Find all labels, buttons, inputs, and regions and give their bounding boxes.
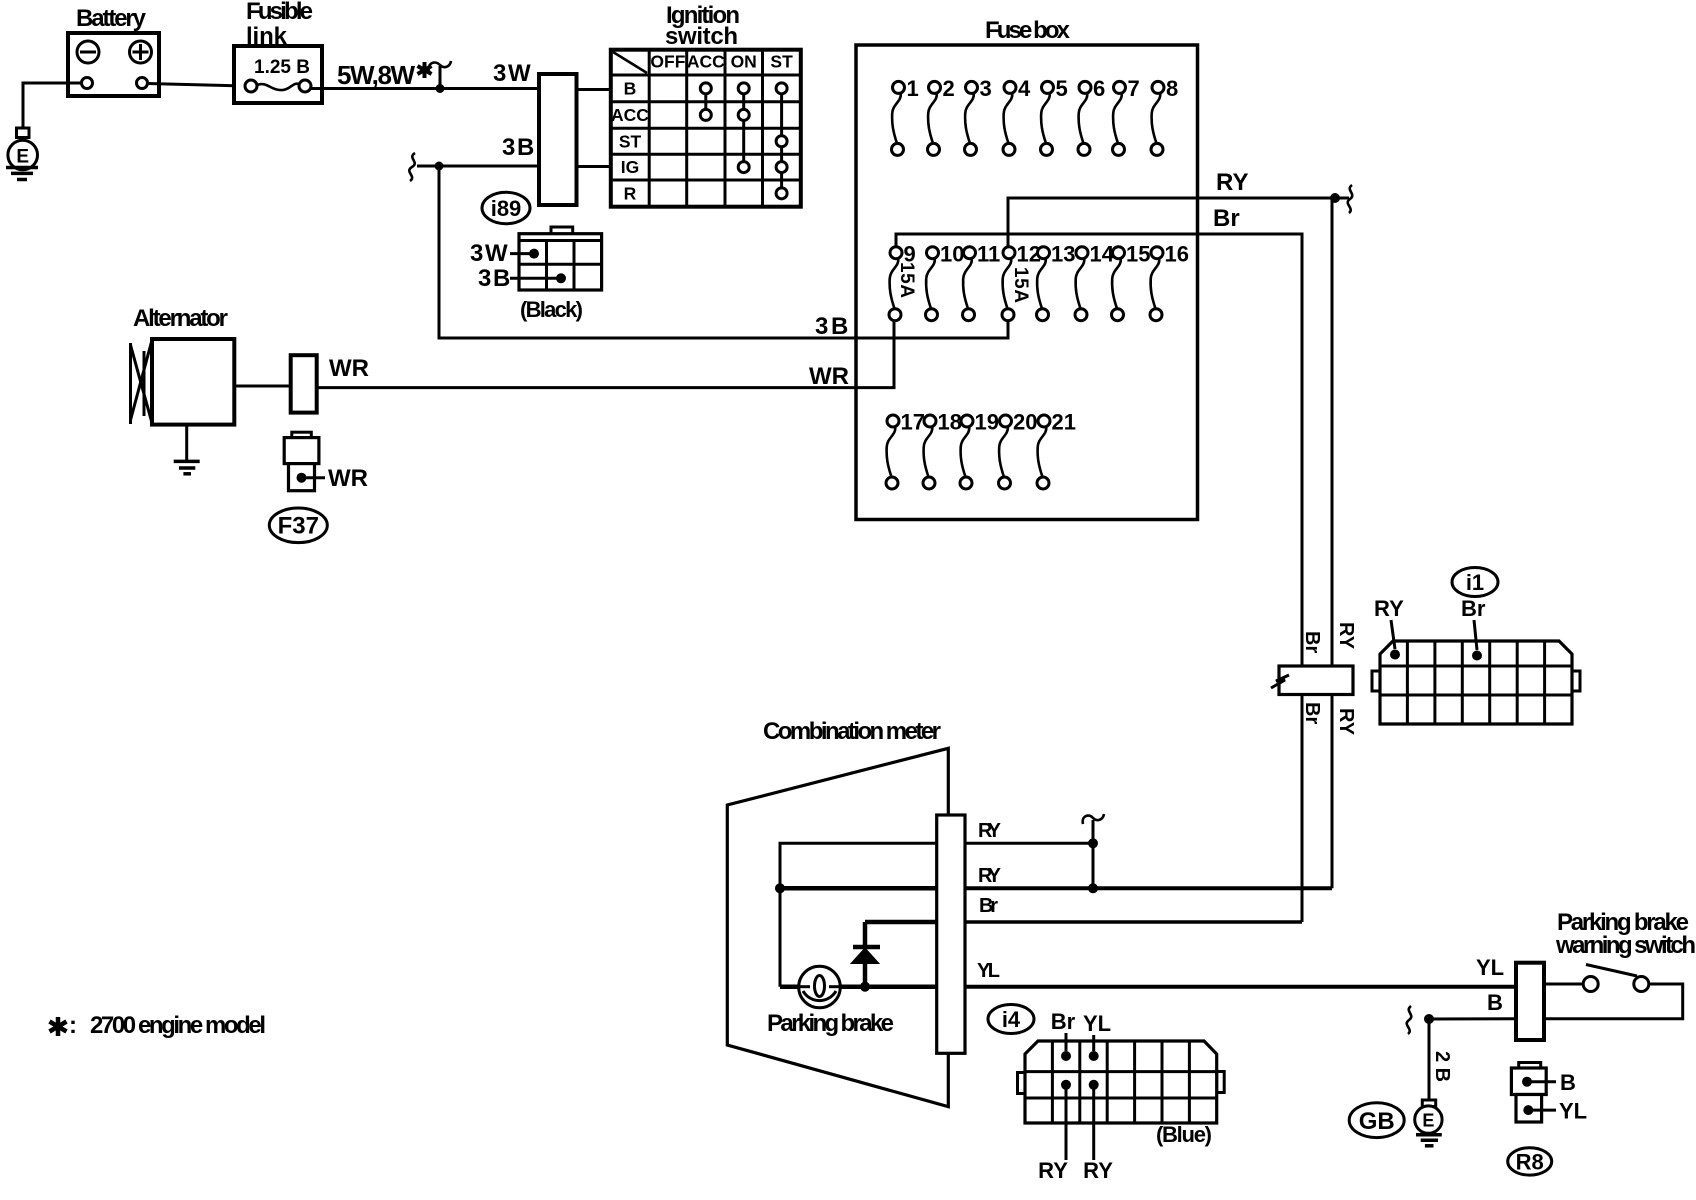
wire alternator to WR connector: [234, 385, 290, 388]
svg-text:13: 13: [1051, 242, 1075, 267]
i4 pin RY left: [1061, 1080, 1071, 1090]
svg-text:RY: RY: [1216, 169, 1248, 196]
wire Br inside meter: [865, 920, 937, 925]
svg-text:YL: YL: [1559, 1099, 1587, 1124]
svg-text:20: 20: [1013, 410, 1037, 435]
svg-text:3: 3: [980, 76, 992, 101]
svg-text:W: W: [508, 60, 531, 87]
svg-text:switch: switch: [665, 23, 738, 50]
WR in-line connector: [291, 355, 317, 412]
fusible link: [234, 46, 322, 103]
svg-text::: :: [69, 1012, 77, 1039]
svg-text:RY: RY: [1374, 596, 1404, 621]
wire Br from fuse 9: [896, 234, 1302, 666]
R8 pin YL: [1523, 1105, 1533, 1115]
svg-text:i4: i4: [1002, 1007, 1021, 1032]
wire YL to parking brake switch: [965, 985, 1516, 989]
node diode junction: [860, 982, 870, 992]
svg-text:W: W: [485, 240, 508, 267]
svg-text:ON: ON: [731, 52, 757, 72]
F37 oval: [269, 508, 327, 543]
fuse 15: [1112, 247, 1125, 321]
fuse box: [856, 45, 1198, 520]
wire WR to fuse 9: [317, 321, 894, 388]
parking brake warning switch: [1583, 965, 1649, 992]
fuse 17: [886, 415, 899, 489]
wire RY from fuse 12: [1008, 198, 1335, 247]
connector F37: [284, 432, 319, 491]
svg-text:5: 5: [1056, 76, 1068, 101]
svg-text:6: 6: [1093, 76, 1105, 101]
ignition switch contacts ST position: [776, 83, 787, 199]
footnote asterisk: [50, 1017, 67, 1036]
ignition switch contacts ACC position: [700, 83, 711, 121]
svg-text:ACC: ACC: [687, 52, 725, 72]
svg-text:B: B: [831, 313, 848, 340]
fuse 21: [1037, 415, 1050, 489]
wire connector to table B row: [577, 88, 611, 91]
wire B to ground junction: [1429, 1017, 1516, 1020]
svg-text:15A: 15A: [896, 262, 917, 298]
svg-text:Br: Br: [1213, 205, 1240, 232]
connector R8: [1511, 1063, 1546, 1123]
svg-text:GB: GB: [1359, 1108, 1395, 1135]
alternator ground: [174, 425, 200, 474]
in-line connector on Br/RY wires: [1279, 666, 1353, 695]
fuse 10: [926, 247, 939, 321]
wire break symbol left of B node: [1407, 1006, 1412, 1034]
fuse 4: [1003, 81, 1016, 155]
wire to parking brake lamp: [779, 888, 782, 986]
svg-text:7: 7: [1128, 76, 1140, 101]
svg-text:5W,8W: 5W,8W: [337, 60, 415, 90]
svg-text:ST: ST: [619, 131, 642, 151]
fuse 18: [923, 415, 936, 489]
svg-text:4: 4: [1018, 76, 1031, 101]
svg-text:2: 2: [943, 76, 955, 101]
fuse 20: [999, 415, 1012, 489]
fuse 11: [963, 247, 976, 321]
svg-text:Fusible: Fusible: [246, 0, 313, 25]
fuse 16: [1150, 247, 1163, 321]
svg-text:19: 19: [975, 410, 999, 435]
i4 pin RY right: [1089, 1080, 1099, 1090]
ground E battery: [6, 128, 38, 180]
wire RY vertical: [1331, 198, 1334, 666]
wire battery to fusible link: [148, 84, 246, 87]
fuse 12: [1002, 247, 1015, 321]
connector i89 (Black): [519, 227, 602, 290]
node RY junction: [1330, 193, 1340, 203]
svg-text:ST: ST: [770, 52, 793, 72]
fuse 13: [1037, 247, 1050, 321]
fuse 14: [1075, 247, 1088, 321]
wire connector to table IG row: [577, 165, 611, 168]
svg-text:16: 16: [1165, 242, 1189, 267]
wire battery negative to ground: [23, 83, 82, 129]
svg-text:11: 11: [977, 242, 1000, 267]
switch in-line connector: [1516, 963, 1544, 1040]
svg-text:RY: RY: [1038, 1158, 1068, 1183]
fuse 9: [889, 247, 902, 321]
svg-text:Battery: Battery: [76, 5, 147, 32]
svg-text:warning switch: warning switch: [1555, 932, 1696, 959]
fuse 2: [928, 81, 941, 155]
diode: [851, 922, 880, 987]
wire RY2 to RY vertical: [965, 886, 1332, 890]
svg-text:(Black): (Black): [520, 297, 583, 322]
svg-text:B: B: [1560, 1070, 1576, 1095]
wire break symbol right of RY node: [1335, 197, 1349, 200]
svg-text:E: E: [1422, 1111, 1434, 1131]
svg-text:IG: IG: [621, 157, 639, 177]
svg-text:WR: WR: [809, 363, 849, 390]
svg-text:Br: Br: [1051, 1009, 1076, 1034]
svg-text:1: 1: [907, 76, 919, 101]
svg-text:RY: RY: [1083, 1158, 1113, 1183]
wire to switch: [1544, 983, 1583, 986]
fuse 19: [960, 415, 973, 489]
svg-text:Br: Br: [1301, 702, 1323, 724]
R8 pin B: [1522, 1077, 1532, 1087]
fuse 1: [892, 81, 905, 155]
alternator: [131, 339, 235, 425]
svg-text:R8: R8: [1516, 1150, 1544, 1175]
wire RY1 inside meter: [780, 843, 937, 888]
battery: [68, 33, 159, 96]
svg-text:Alternator: Alternator: [133, 305, 228, 332]
svg-text:YL: YL: [977, 960, 1000, 982]
svg-text:Parking brake: Parking brake: [767, 1010, 894, 1037]
svg-text:(Blue): (Blue): [1156, 1122, 1212, 1147]
fuse 6: [1078, 81, 1091, 155]
svg-text:1.25 B: 1.25 B: [254, 57, 310, 78]
svg-text:21: 21: [1052, 410, 1076, 435]
svg-text:Br: Br: [1301, 631, 1323, 653]
svg-text:i89: i89: [491, 196, 522, 221]
meter connector bar: [937, 815, 965, 1053]
connector i4 grid: [1018, 1041, 1225, 1123]
svg-text:RY: RY: [1335, 708, 1357, 736]
svg-text:15: 15: [1126, 242, 1150, 267]
connector i89 oval: [482, 192, 530, 223]
svg-text:F37: F37: [278, 513, 319, 540]
svg-text:RY: RY: [978, 820, 1002, 842]
wire RY2 inside meter: [780, 886, 937, 891]
svg-text:3: 3: [478, 265, 491, 292]
wire switch return B: [1544, 984, 1683, 1019]
connector i1 grid: [1372, 641, 1580, 724]
wire fusible link to ignition connector: [311, 87, 539, 90]
ignition switch table: [611, 50, 801, 207]
ground E right: [1415, 1100, 1442, 1146]
svg-text:18: 18: [938, 410, 962, 435]
svg-text:Br: Br: [1461, 596, 1486, 621]
svg-text:i1: i1: [1466, 570, 1484, 595]
GB oval: [1349, 1103, 1404, 1138]
fuse 5: [1041, 81, 1054, 155]
ignition switch contacts ON position: [738, 83, 749, 173]
svg-text:WR: WR: [328, 465, 368, 492]
svg-text:OFF: OFF: [650, 52, 685, 72]
wire lamp to YL: [840, 984, 937, 989]
ignition switch connector: [539, 74, 577, 205]
svg-text:WR: WR: [329, 355, 369, 382]
parking brake lamp: [799, 966, 841, 1008]
wire Br to Br vertical: [965, 920, 1302, 924]
svg-text:YL: YL: [1083, 1011, 1111, 1036]
svg-text:2700 engine model: 2700 engine model: [90, 1012, 266, 1039]
fuse 7: [1113, 81, 1126, 155]
svg-text:E: E: [16, 147, 29, 168]
svg-text:8: 8: [1166, 76, 1178, 101]
node junction 5W/3W: [436, 84, 445, 93]
fuse 8: [1151, 81, 1164, 155]
svg-text:B: B: [1487, 990, 1503, 1015]
svg-text:B: B: [493, 265, 510, 292]
svg-text:3: 3: [493, 60, 506, 87]
connector i1 oval: [1452, 568, 1498, 597]
svg-text:B: B: [624, 78, 637, 98]
combination meter outline: [727, 748, 948, 1106]
wire RY1 to antenna stub: [965, 842, 1093, 845]
node 3B junction: [435, 162, 444, 171]
wire break symbol left of 3B node: [409, 153, 415, 181]
svg-text:3: 3: [470, 240, 483, 267]
wire RY below connector: [1331, 695, 1334, 889]
svg-text:R: R: [624, 183, 637, 203]
svg-text:YL: YL: [1476, 955, 1504, 980]
svg-text:14: 14: [1090, 242, 1115, 267]
wire Br below connector: [1301, 695, 1304, 923]
svg-text:RY: RY: [1335, 622, 1357, 650]
svg-text:15A: 15A: [1010, 267, 1031, 303]
connector i4 oval: [988, 1005, 1034, 1034]
svg-text:10: 10: [940, 242, 964, 267]
svg-text:17: 17: [901, 410, 925, 435]
wire 3B to fuse 12: [439, 166, 1008, 338]
fuse 3: [965, 81, 978, 155]
svg-text:Fuse box: Fuse box: [985, 17, 1071, 44]
svg-text:3: 3: [502, 134, 515, 161]
svg-text:Br: Br: [979, 895, 998, 917]
svg-text:Combination meter: Combination meter: [763, 718, 941, 745]
F37 pin WR: [297, 473, 307, 483]
svg-text:2 B: 2 B: [1431, 1051, 1453, 1082]
node RY2 left junction: [775, 883, 785, 893]
svg-text:3: 3: [815, 313, 828, 340]
node B junction: [1424, 1014, 1434, 1024]
svg-text:RY: RY: [978, 865, 1002, 887]
R8 oval: [1508, 1148, 1552, 1175]
svg-text:B: B: [517, 134, 534, 161]
wire 2B down: [1428, 1019, 1431, 1100]
svg-text:ACC: ACC: [611, 105, 649, 125]
